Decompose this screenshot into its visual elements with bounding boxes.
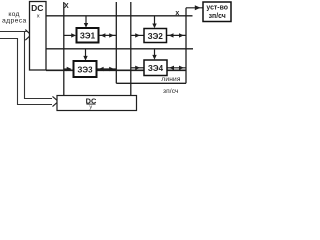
svg-text:ЗЭ4: ЗЭ4	[148, 64, 164, 73]
svg-text:X: X	[64, 3, 69, 10]
svg-text:зп/сч: зп/сч	[209, 13, 226, 20]
memory cell ZE4	[144, 60, 167, 76]
svg-text:x: x	[175, 10, 179, 17]
memory cell ZE3 input arrow (left)	[64, 67, 72, 71]
svg-text:адреса: адреса	[2, 18, 27, 25]
open arrowhead of address bus into DC x	[25, 30, 31, 41]
memory cell ZE3 select arrow (top)	[83, 49, 87, 61]
wire: column select line V3 (from DC y)	[130, 2, 132, 96]
svg-text:линия: линия	[161, 76, 181, 83]
svg-text:ЗЭ2: ЗЭ2	[148, 32, 164, 41]
address bus (код адреса), hollow double-line bus	[0, 32, 52, 105]
memory cell ZE3	[74, 61, 97, 77]
svg-text:x: x	[37, 14, 40, 20]
svg-text:y: y	[89, 104, 92, 110]
memory cell ZE2 input arrow (left)	[131, 33, 144, 37]
svg-text:уст-во: уст-во	[206, 5, 228, 12]
memory cell ZE2 select arrow (top)	[152, 16, 156, 28]
wire: bottom join of bit lines (линия зп/сч)	[116, 82, 186, 84]
memory cell ZE1 select arrow (top)	[84, 16, 88, 28]
open arrowhead of address bus into DC y	[53, 96, 59, 106]
wire: column select line V1 (from DC y, labeled X)	[63, 2, 65, 96]
memory cell ZE2	[144, 29, 167, 43]
decoder DC x	[30, 2, 47, 71]
read/write unit (уст-во зп/сч)	[203, 2, 231, 22]
wire: read/write bit line left column	[115, 2, 117, 83]
svg-text:DC: DC	[31, 3, 43, 13]
memory cell ZE4 input arrow (left)	[131, 66, 144, 70]
wire: read/write bit line right column	[185, 8, 187, 84]
arrowhead into read/write unit	[195, 5, 201, 10]
wire: row select line 2 (from DC x)	[46, 48, 193, 50]
memory cell ZE4 select arrow (top)	[152, 49, 156, 60]
memory cell ZE2 bidirectional data link (right)	[167, 33, 187, 37]
wire: link to read/write unit	[186, 7, 204, 9]
decoder DC y	[57, 96, 137, 111]
wire: row select line 1 (from DC x)	[46, 15, 193, 17]
svg-text:ЗЭ1: ЗЭ1	[80, 32, 96, 41]
wire: row select line 3 / matrix bottom line	[46, 69, 186, 71]
svg-text:ЗЭ3: ЗЭ3	[77, 65, 93, 74]
memory cell ZE1 bidirectional data link (right)	[99, 33, 117, 37]
svg-text:зп/сч: зп/сч	[163, 88, 179, 95]
memory cell ZE3 bidirectional data link (right)	[97, 67, 117, 71]
memory cell ZE1	[77, 28, 99, 43]
memory cell ZE1 input arrow (left)	[64, 33, 76, 37]
memory cell ZE4 bidirectional data link (right)	[167, 66, 186, 70]
